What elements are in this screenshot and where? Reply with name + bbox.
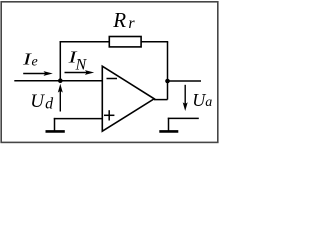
svg-text:Ie: Ie bbox=[22, 49, 38, 69]
ground right bar bbox=[159, 130, 178, 133]
current arrow Ie bbox=[23, 73, 45, 75]
op-amp minus sign bbox=[107, 78, 118, 80]
wire output to terminal bbox=[168, 80, 202, 82]
svg-text:IN: IN bbox=[67, 48, 87, 74]
node junction dot left bbox=[58, 78, 63, 83]
ground left vertical bbox=[54, 118, 56, 131]
current arrow IN bbox=[65, 72, 88, 74]
voltage arrow Ud (up) bbox=[59, 88, 61, 112]
wire noninverting input bbox=[54, 118, 102, 120]
resistor Rr bbox=[109, 37, 141, 47]
wire feedback top left bbox=[60, 41, 110, 43]
ground left bar bbox=[46, 130, 65, 133]
op-amp U1 triangle bbox=[102, 66, 154, 131]
svg-text:Ud: Ud bbox=[30, 91, 54, 112]
wire op-amp output bbox=[154, 99, 168, 101]
wire feedback top right bbox=[141, 41, 168, 43]
border frame bbox=[1, 2, 218, 143]
svg-text:Ua: Ua bbox=[192, 90, 212, 110]
wire feedback vertical right bbox=[167, 42, 169, 100]
op-amp plus sign bbox=[104, 114, 114, 116]
svg-text:Rr: Rr bbox=[112, 8, 135, 32]
wire feedback vertical left bbox=[59, 41, 61, 81]
voltage arrow Ua (down) bbox=[184, 85, 186, 107]
wire input line to inverting input bbox=[14, 80, 102, 82]
node junction dot right bbox=[165, 79, 170, 84]
ground right vertical bbox=[168, 118, 170, 131]
wire output lower (ground reference) bbox=[168, 117, 199, 119]
